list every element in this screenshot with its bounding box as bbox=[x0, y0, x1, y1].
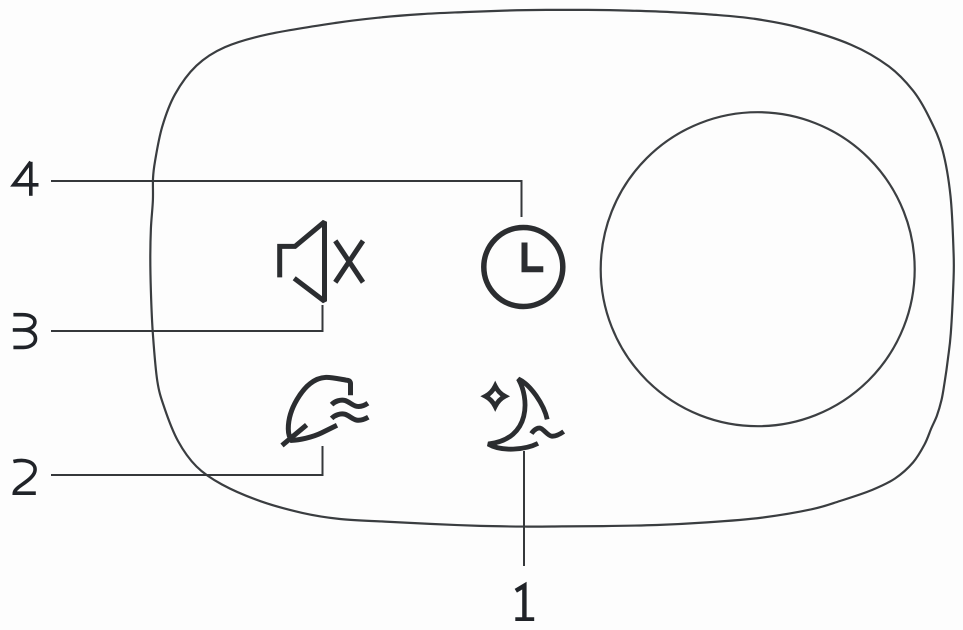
speaker horn outline bbox=[280, 222, 325, 301]
leader line 4 bbox=[51, 181, 522, 217]
mute speaker icon bbox=[280, 222, 363, 301]
feather quill bbox=[282, 425, 307, 446]
label 3 bbox=[13, 315, 36, 348]
leader line 2 bbox=[51, 446, 323, 475]
leader line 3 bbox=[51, 305, 323, 331]
device body outline bbox=[150, 10, 954, 527]
mute X stroke 1 bbox=[335, 241, 363, 282]
night wave bbox=[531, 428, 563, 436]
label 4 bbox=[14, 162, 39, 196]
speaker knob circle bbox=[601, 112, 915, 426]
label 2 bbox=[13, 461, 35, 494]
sparkle star bbox=[486, 386, 505, 406]
crescent moon bbox=[488, 379, 547, 449]
clock hands bbox=[525, 243, 544, 270]
label 1 bbox=[515, 586, 534, 620]
mute X stroke 2 bbox=[335, 241, 363, 282]
leader line 1 bbox=[523, 451, 525, 566]
clock face circle bbox=[484, 228, 563, 307]
timer clock icon bbox=[484, 228, 563, 307]
breeze wave lower bbox=[332, 414, 369, 420]
feather leaf outline bbox=[288, 377, 350, 440]
feather breeze icon bbox=[282, 377, 368, 445]
breeze wave upper bbox=[332, 400, 368, 406]
night moon icon bbox=[486, 379, 564, 449]
